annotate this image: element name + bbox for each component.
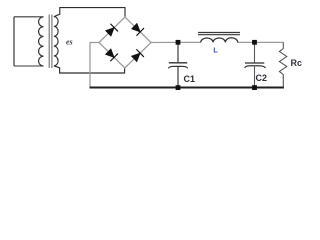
diode D2 upper-right [132, 23, 144, 35]
capacitor C1 plates [169, 62, 187, 64]
svg-text:C1: C1 [184, 74, 196, 84]
transformer T1 primary winding [39, 17, 44, 66]
wire left vertex to bottom rail [90, 43, 99, 88]
capacitor C1 top lead [177, 42, 179, 62]
capacitor C2 top lead [254, 42, 256, 62]
resistor Rc bottom lead [282, 75, 284, 88]
diode D4 lower-right [132, 49, 144, 61]
capacitor C1 bottom lead [177, 67, 179, 88]
transformer T1 primary bottom wire [14, 65, 44, 67]
transformer T1 primary top wire [14, 16, 44, 18]
junction dot C1 bottom [176, 85, 181, 90]
bottom rail [90, 87, 284, 89]
top rail with inductor humps [151, 41, 283, 43]
svg-text:C2: C2 [256, 73, 268, 83]
junction dot C1 top [176, 40, 181, 45]
diode D1 upper-left [106, 24, 118, 36]
junction dot C2 top [252, 40, 257, 45]
bridge rectifier diamond [99, 17, 151, 68]
svg-text:es: es [66, 38, 73, 47]
transformer T1 secondary winding [54, 17, 58, 66]
wire secondary top to bridge top vertex [54, 8, 125, 17]
capacitor C2 plates [245, 62, 264, 64]
svg-text:L: L [213, 45, 218, 54]
resistor Rc zigzag [279, 49, 286, 75]
svg-text:Rc: Rc [291, 58, 303, 68]
wire primary source left vertical [13, 17, 15, 66]
transformer T1 core [49, 15, 52, 69]
diode D3 lower-left [106, 49, 118, 61]
wire secondary bottom to bridge bottom vertex [54, 66, 125, 73]
inductor L core lines [198, 33, 240, 35]
capacitor C2 bottom lead [254, 66, 256, 88]
junction dot C2 bottom [252, 85, 257, 90]
resistor Rc top lead [282, 42, 284, 48]
